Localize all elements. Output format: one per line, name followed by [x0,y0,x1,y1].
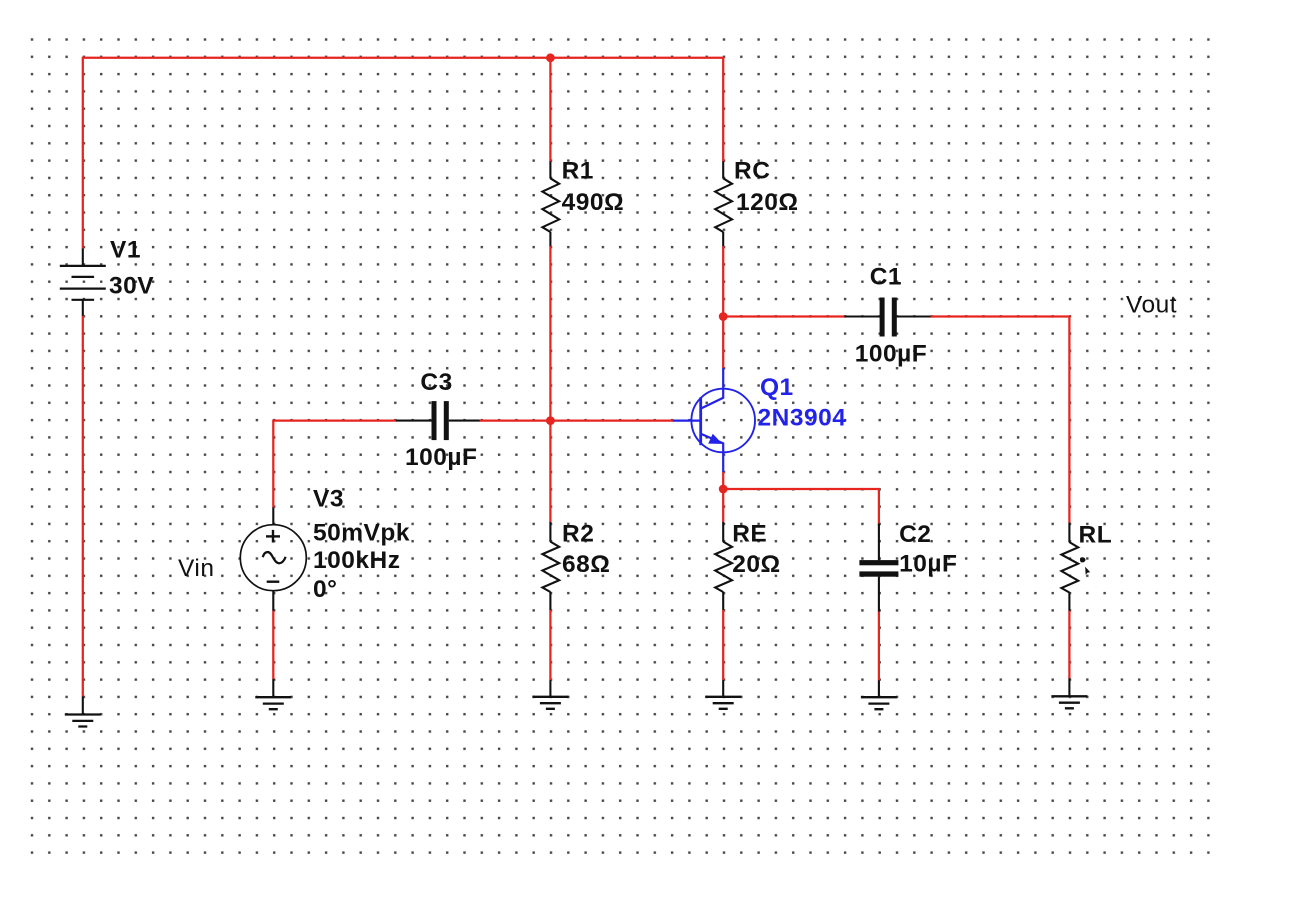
wire C2 bottom to ground [878,611,880,680]
svg-text:C2: C2 [899,521,931,548]
wire R1 top vertical [549,58,551,162]
resistor RC [715,161,732,246]
ac source V3 [240,507,306,610]
svg-text:100µF: 100µF [405,444,477,471]
svg-text:100µF: 100µF [855,340,927,367]
junction node C collector [719,312,728,321]
ground R2 [532,680,568,709]
wire V1 bottom to ground [82,316,84,697]
wire V3 bottom to ground [272,611,274,680]
wire node E to C2 top [723,489,879,525]
ground V3 [255,679,291,709]
svg-text:R1: R1 [562,157,594,184]
svg-text:490Ω: 490Ω [562,189,625,216]
capacitor C2 [859,524,898,612]
svg-text:R2: R2 [562,521,594,548]
resistor R2 [542,522,559,610]
svg-text:RE: RE [732,521,767,548]
wire top rail V1 to RC [83,57,724,59]
svg-text:68Ω: 68Ω [562,551,610,578]
svg-text:Q1: Q1 [760,374,794,401]
wire V1 top vertical [82,57,84,249]
resistor RL [1061,523,1078,611]
wire RC top vertical [722,58,724,162]
wire R2 bottom to ground [549,610,551,681]
ground V1 [65,696,101,726]
svg-text:120Ω: 120Ω [736,189,799,216]
transistor Q1 [673,368,755,472]
resistor RE [715,522,732,610]
ground RL [1051,678,1087,708]
junction node B base [546,416,555,425]
wire C3 left to V3 top [273,421,396,508]
svg-text:20Ω: 20Ω [732,551,780,578]
svg-text:V1: V1 [110,236,141,263]
capacitor C3 [396,401,480,440]
svg-text:10µF: 10µF [899,551,957,578]
svg-text:2N3904: 2N3904 [758,404,847,431]
svg-text:50mVpk: 50mVpk [313,519,410,546]
svg-text:100kHz: 100kHz [313,547,400,574]
svg-text:Vin: Vin [178,555,214,582]
capacitor C1 [844,298,930,337]
mouse cursor artifact [1080,557,1090,575]
svg-text:RL: RL [1079,521,1113,548]
svg-text:30V: 30V [109,273,154,300]
wire node C to C1 left [723,315,844,317]
wire C1 right to RL top [930,317,1069,523]
wire RC bottom to Q1 collector through node C [722,246,724,368]
junction node E emitter [719,485,728,494]
wire Q1 emitter to RE top through node E [722,472,724,522]
wire RL bottom to ground [1068,611,1070,679]
ground C2 [861,680,897,709]
wire RE bottom to ground [722,610,724,681]
svg-text:RC: RC [734,157,770,184]
ground RE [705,680,741,709]
svg-text:C3: C3 [420,369,452,396]
battery V1 [60,249,106,316]
svg-text:C1: C1 [870,263,902,290]
resistor R1 [542,161,559,246]
junction node A top rail [546,53,555,62]
wire R1 bottom to R2 top through node B [549,246,551,522]
svg-text:0°: 0° [313,576,337,603]
wire node B to Q1 base [479,419,673,421]
svg-text:V3: V3 [313,486,344,513]
svg-text:Vout: Vout [1126,292,1177,319]
